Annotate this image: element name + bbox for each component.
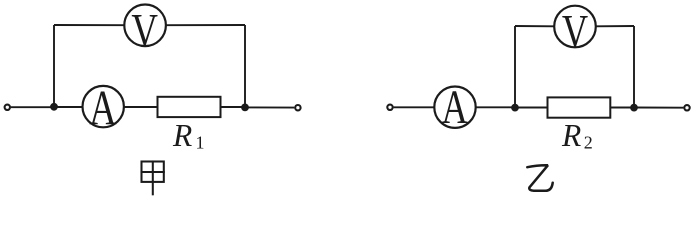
wire voltmeter V2 to top right (596, 25, 634, 27)
svg-text:1: 1 (196, 133, 205, 153)
terminal T3 (left open terminal) (387, 105, 392, 110)
label 甲 (142, 162, 164, 195)
wire node A to ammeter A1 (54, 106, 83, 108)
voltmeter V2 circle (554, 6, 596, 48)
terminal T2 (right open terminal) (295, 105, 300, 110)
svg-text:A: A (89, 81, 117, 136)
terminal T4 (right open terminal) (684, 105, 689, 110)
node D (junction dot) (630, 104, 638, 112)
label 乙 (527, 165, 552, 191)
ammeter A2 label "A" (442, 81, 469, 134)
wire voltmeter V1 to top right (166, 24, 245, 26)
wire T3 to ammeter A2 (394, 106, 435, 108)
wire riser node A up (53, 25, 55, 107)
wire node C to resistor R2 (515, 107, 548, 109)
ammeter A1 circle (83, 86, 124, 127)
wire resistor R1 to node B (221, 106, 246, 108)
wire riser node C up (514, 26, 516, 108)
node B (junction dot) (241, 104, 249, 112)
svg-text:R: R (561, 118, 581, 153)
node A (junction dot) (50, 103, 58, 111)
svg-text:A: A (442, 81, 469, 134)
wire top left to voltmeter V1 (54, 24, 125, 26)
resistor R1 box (158, 97, 221, 117)
wire ammeter A1 to resistor R1 (124, 106, 158, 108)
wire node B to terminal T2 (245, 106, 294, 108)
wire ammeter A2 to node C (476, 106, 515, 108)
svg-text:2: 2 (584, 133, 593, 153)
voltmeter V2 label "V" (562, 6, 589, 59)
terminal T1 (left open terminal) (5, 105, 10, 110)
wire resistor R2 to node D (610, 107, 634, 109)
wire node D to terminal T4 (634, 107, 683, 109)
svg-text:V: V (131, 5, 158, 58)
ammeter A1 label "A" (89, 81, 117, 136)
resistor R2 box (548, 97, 611, 117)
wire riser node B up (244, 25, 246, 107)
wire riser node D up (633, 26, 635, 108)
wire top left to voltmeter V2 (515, 25, 554, 27)
wire T1 to node A (11, 106, 54, 108)
svg-text:V: V (562, 6, 589, 59)
svg-text:R: R (172, 118, 192, 153)
node C (junction dot) (511, 104, 519, 112)
voltmeter V1 label "V" (131, 5, 158, 58)
ammeter A2 circle (434, 87, 475, 128)
voltmeter V1 circle (124, 5, 166, 47)
